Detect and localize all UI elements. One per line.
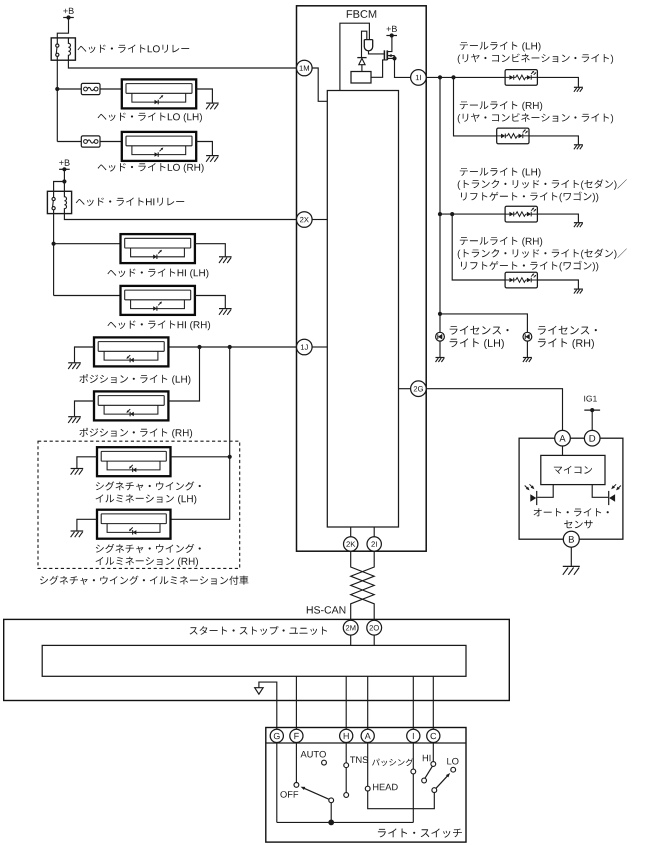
connector B sensor bbox=[563, 531, 579, 547]
wire 2X to CPU bbox=[312, 219, 327, 221]
label trunk RH line2 bbox=[458, 249, 627, 260]
headlight HI RH bbox=[121, 286, 195, 315]
wire CPU to 2K bbox=[350, 527, 352, 537]
junction Q1 source bbox=[392, 56, 396, 60]
wire row3 to lamp bbox=[54, 243, 121, 245]
wire A feed bbox=[367, 676, 369, 729]
label wing LH line1 bbox=[96, 481, 201, 490]
connector 2I bbox=[367, 537, 381, 551]
wire G down bbox=[276, 743, 278, 823]
ground pos RH bbox=[68, 417, 81, 423]
wire LO coil to 1M bbox=[68, 60, 296, 68]
wire A to micom bbox=[562, 446, 564, 455]
junction trunk col1 bbox=[438, 212, 442, 216]
auto light sensor box bbox=[519, 438, 623, 539]
wire G with ground branch bbox=[259, 682, 277, 729]
connector 1J bbox=[297, 339, 313, 355]
wire LO switch feed bbox=[56, 56, 58, 141]
connector 2X bbox=[297, 212, 313, 228]
wire 2M to inner bbox=[350, 635, 352, 645]
wire CPU to 2G bbox=[399, 388, 411, 390]
label tail RH line1 bbox=[460, 101, 542, 111]
wire wing LH to ground bbox=[77, 457, 97, 468]
label trunk LH line2 bbox=[458, 179, 627, 190]
connector 2G bbox=[411, 381, 427, 397]
blade HI bbox=[425, 766, 433, 778]
label OFF bbox=[280, 791, 298, 798]
label trunk LH line1 bbox=[460, 168, 541, 178]
wire pos RH to ground bbox=[75, 401, 95, 416]
label start-stop unit bbox=[190, 626, 328, 635]
label trunk RH line3 bbox=[461, 261, 598, 272]
contact TNS bbox=[344, 763, 349, 768]
wire B to ground bbox=[570, 547, 572, 566]
wire pos LH to ground bbox=[75, 347, 95, 362]
connector D sensor bbox=[584, 430, 600, 446]
relay coil L1 (dome) bbox=[364, 40, 372, 51]
tail light LH module bbox=[505, 70, 537, 86]
driver block U2 bbox=[351, 72, 371, 84]
wire row2 to fuse bbox=[57, 141, 81, 143]
junction license bbox=[438, 312, 442, 316]
contact HEAD bbox=[365, 786, 370, 791]
label micom bbox=[554, 466, 592, 474]
wire 2G to sensor A bbox=[426, 389, 562, 431]
ground tail RH bbox=[574, 145, 583, 150]
wire micom to photodiode L bbox=[537, 485, 553, 498]
label option note bbox=[40, 576, 248, 585]
signature wing illumination LH bbox=[97, 447, 171, 476]
wire HI switch feed bbox=[53, 210, 55, 296]
junction row3 bbox=[52, 242, 56, 246]
wire wing LH to bus bbox=[171, 456, 230, 458]
junction HI relay bbox=[62, 179, 66, 183]
connector 2M bbox=[343, 620, 358, 635]
label license RH line1 bbox=[538, 326, 597, 335]
label headlight LO RH bbox=[98, 163, 204, 173]
wire pos RH to bus bbox=[169, 347, 200, 401]
blade OFF with arrow bbox=[301, 787, 329, 800]
light switch box bbox=[266, 728, 466, 843]
label headlight HI RH bbox=[107, 320, 210, 330]
ground row2 bbox=[206, 156, 219, 162]
wire F feed bbox=[295, 676, 297, 729]
wire 1J bus bbox=[169, 346, 297, 348]
position light LH bbox=[94, 337, 168, 366]
junction trunk col2 bbox=[450, 212, 454, 216]
wire lamp to ground row3 bbox=[195, 244, 225, 257]
wire HI coil to 2X bbox=[64, 214, 296, 220]
wire +B to LO relay switch bbox=[57, 18, 68, 45]
ground trunk RH bbox=[574, 289, 583, 294]
label wing LH line2 bbox=[96, 494, 197, 504]
wire tail LH to ground bbox=[537, 77, 578, 87]
wire I feed bbox=[412, 676, 414, 729]
diode D1 bbox=[357, 58, 366, 72]
wire C feed bbox=[432, 676, 434, 729]
wire tail main bus bbox=[439, 77, 441, 332]
contact dimmer pivot bbox=[432, 788, 437, 793]
photodiode left bbox=[525, 484, 537, 505]
connector G bbox=[270, 729, 283, 742]
wire tail RH feed bbox=[454, 77, 497, 135]
connector 1I bbox=[411, 70, 427, 86]
wire A down to dimmer bbox=[368, 743, 435, 809]
wire CPU to coil frame bbox=[340, 23, 370, 90]
start-stop unit box bbox=[4, 619, 510, 700]
connector F bbox=[290, 729, 303, 742]
contact OFF bbox=[294, 783, 299, 788]
ground row4 bbox=[219, 309, 232, 315]
wire row4 to lamp bbox=[54, 295, 121, 297]
wire switch common rail bbox=[277, 821, 414, 823]
wire license RH ground bbox=[526, 341, 528, 357]
wire micom to photodiode R bbox=[592, 485, 608, 498]
label LO switch bbox=[447, 758, 458, 765]
wire license LH ground bbox=[439, 341, 441, 357]
FBCM label bbox=[347, 10, 376, 18]
label position RH bbox=[79, 428, 192, 439]
junction tail col2 row1 bbox=[451, 75, 455, 79]
position light RH bbox=[94, 391, 168, 420]
label HI bbox=[423, 755, 431, 761]
wire wing feed bbox=[171, 347, 230, 519]
blade LO with arrow bbox=[436, 773, 450, 788]
wire diode to coil jog bbox=[362, 31, 367, 57]
wire C down bbox=[432, 743, 434, 762]
FBCM internal CPU box bbox=[327, 91, 398, 528]
IG1 terminal bbox=[584, 396, 600, 413]
ground row3 bbox=[219, 257, 232, 263]
label relay LO bbox=[78, 45, 190, 54]
+B terminal FBCM bbox=[386, 26, 397, 38]
wire I down bbox=[412, 743, 414, 823]
FBCM module box bbox=[297, 6, 427, 551]
+B terminal HI relay bbox=[59, 160, 70, 172]
label sensor line2 bbox=[564, 520, 593, 528]
wire IG1 to D bbox=[591, 410, 593, 430]
connector C bbox=[427, 729, 440, 742]
label headlight LO LH bbox=[98, 113, 202, 123]
headlight LO LH bbox=[122, 79, 196, 108]
label sensor line1 bbox=[534, 508, 609, 516]
ground pos LH bbox=[68, 363, 81, 369]
headlight HI LH bbox=[121, 234, 195, 263]
wire Q1 to 1I bbox=[395, 58, 411, 77]
connector I bbox=[407, 729, 420, 742]
connector 2O bbox=[367, 620, 382, 635]
tail light RH module bbox=[497, 128, 529, 144]
wire trunk LH to ground bbox=[537, 214, 578, 222]
contact LO bbox=[451, 767, 456, 772]
wire pivot to rail bbox=[330, 803, 332, 823]
wire lamp to ground row1 bbox=[196, 89, 212, 103]
relay K1 headlight LO bbox=[51, 38, 75, 60]
wire wing RH to ground bbox=[77, 519, 97, 530]
wire trunk RH feed bbox=[452, 214, 505, 280]
wire driver to MOSFET source bbox=[371, 60, 387, 77]
label license RH line2 bbox=[538, 338, 594, 349]
+B terminal LO relay bbox=[63, 8, 74, 20]
junction row1 bbox=[55, 87, 59, 91]
label HS-CAN bbox=[307, 606, 346, 613]
label position LH bbox=[79, 374, 190, 385]
label license LH line1 bbox=[450, 326, 509, 335]
label tail LH line2 bbox=[458, 54, 613, 64]
fuse F2 bbox=[81, 136, 100, 147]
junction pos bus B bbox=[228, 345, 232, 349]
MOSFET Q1 bbox=[384, 36, 394, 61]
contact TNS end bbox=[344, 793, 349, 798]
photodiode right bbox=[609, 484, 621, 505]
connector H bbox=[340, 729, 353, 742]
label headlight HI LH bbox=[107, 269, 208, 279]
fuse F1 bbox=[81, 83, 100, 94]
label HEAD bbox=[373, 784, 398, 790]
junction rail bbox=[328, 820, 334, 826]
label AUTO bbox=[301, 751, 326, 758]
contact AUTO bbox=[322, 760, 327, 765]
wire coil to gate bbox=[369, 51, 385, 54]
wire row1 to fuse bbox=[57, 88, 81, 90]
wire lamp to ground row4 bbox=[195, 296, 225, 309]
connector 2K bbox=[344, 537, 358, 551]
ground wing LH bbox=[71, 469, 84, 475]
label tail LH line1 bbox=[460, 42, 541, 52]
signature wing illumination RH bbox=[97, 510, 171, 539]
ground trunk LH bbox=[574, 223, 583, 228]
wire fuse to lamp LO RH bbox=[100, 141, 122, 143]
junction tail col1 row1 bbox=[438, 75, 442, 79]
wire F down bbox=[295, 743, 297, 783]
twisted pair HS-CAN bbox=[351, 551, 375, 620]
chassis ground arrow bbox=[255, 688, 263, 695]
tail light trunk RH module bbox=[505, 272, 537, 288]
contact OFF pivot bbox=[329, 798, 334, 803]
label trunk LH line3 bbox=[461, 192, 598, 203]
wire tail RH to ground bbox=[529, 136, 578, 145]
junction wing LH bbox=[228, 455, 232, 459]
wire fuse to lamp LO LH bbox=[100, 88, 122, 90]
wire 1J to CPU bbox=[312, 346, 327, 348]
option dashed box bbox=[38, 441, 240, 568]
ground row1 bbox=[206, 103, 219, 109]
wire lamp to ground row2 bbox=[196, 142, 212, 156]
tail light trunk LH module bbox=[505, 206, 537, 222]
ground sensor B bbox=[563, 566, 580, 574]
headlight LO RH bbox=[122, 132, 196, 161]
license light RH bbox=[523, 332, 532, 341]
label trunk RH line1 bbox=[460, 237, 542, 247]
junction pos bus A bbox=[197, 345, 201, 349]
wire CPU to 2I bbox=[373, 527, 375, 537]
wire +B to HI relay bbox=[54, 169, 65, 197]
wire license bus bbox=[440, 314, 527, 333]
start-stop inner box bbox=[42, 645, 466, 676]
wire trunk row3 bbox=[440, 213, 505, 215]
connector A switch bbox=[361, 729, 374, 742]
connector 1M bbox=[297, 60, 313, 76]
connector A sensor bbox=[555, 430, 571, 446]
ground license RH bbox=[523, 358, 532, 363]
ground tail LH bbox=[574, 87, 583, 92]
label tail RH line2 bbox=[458, 113, 613, 123]
wire trunk RH to ground bbox=[537, 280, 578, 289]
contact passing bbox=[411, 769, 416, 774]
wire 2O to inner bbox=[373, 635, 375, 645]
wire 1M to CPU bbox=[312, 68, 327, 101]
wire H feed bbox=[345, 676, 347, 729]
microcomputer box bbox=[541, 455, 605, 484]
ground wing RH bbox=[71, 531, 84, 537]
relay K2 headlight HI bbox=[47, 191, 71, 213]
light switch header line bbox=[266, 742, 466, 744]
ground license LH bbox=[436, 358, 445, 363]
label wing RH line2 bbox=[96, 557, 198, 567]
license light LH bbox=[436, 332, 445, 341]
label license LH line2 bbox=[450, 338, 504, 349]
wire H down bbox=[345, 743, 347, 793]
contact HI top bbox=[431, 762, 436, 767]
label relay HI bbox=[76, 198, 184, 207]
label light switch bbox=[378, 828, 462, 837]
contact HI bottom bbox=[422, 778, 427, 783]
label TNS bbox=[350, 756, 368, 763]
wire 1I to tail row1 bbox=[426, 76, 505, 78]
label passing bbox=[372, 758, 413, 766]
label wing RH line1 bbox=[96, 544, 201, 553]
